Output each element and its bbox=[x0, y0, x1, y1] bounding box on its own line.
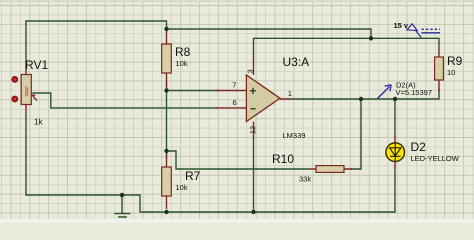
wire op-amp pin12 down to ground rail bbox=[253, 139, 255, 212]
op-amp U3:A bbox=[216, 56, 289, 140]
wire plus node to op-amp pin7 bbox=[167, 90, 218, 92]
svg-text:D2: D2 bbox=[411, 140, 427, 154]
svg-text:R9: R9 bbox=[447, 54, 463, 68]
wire rail to R9 top bbox=[371, 38, 439, 49]
wire op-amp pin3 to rail bbox=[254, 38, 372, 56]
svg-text:LM339: LM339 bbox=[283, 131, 306, 140]
svg-text:1k: 1k bbox=[34, 118, 43, 127]
svg-text:1: 1 bbox=[288, 89, 292, 98]
wire R10 right up to output bbox=[351, 99, 361, 169]
svg-text:R7: R7 bbox=[185, 169, 201, 183]
ground terminal bbox=[115, 195, 131, 217]
wire plus node down to feedback junction bbox=[166, 91, 168, 159]
RV1 state dot lower bbox=[11, 96, 18, 103]
wire LED bottom to ground rail bbox=[26, 113, 395, 212]
svg-text:15 v: 15 v bbox=[394, 21, 409, 30]
svg-text:12: 12 bbox=[248, 126, 257, 134]
svg-text:33k: 33k bbox=[299, 175, 311, 184]
wire feedback jog to R10 left bbox=[167, 151, 310, 169]
resistor R10 bbox=[309, 166, 352, 173]
svg-text:10k: 10k bbox=[176, 59, 188, 68]
junction feedback node bbox=[164, 149, 168, 153]
resistor R9 bbox=[435, 49, 444, 92]
wire output junction down to LED top bbox=[394, 99, 396, 136]
junction output to LED bbox=[393, 97, 397, 101]
resistor R8 bbox=[162, 31, 172, 87]
svg-text:LED-YELLOW: LED-YELLOW bbox=[411, 154, 460, 163]
resistor R7 bbox=[162, 154, 172, 209]
junction R8 top bbox=[164, 27, 168, 31]
potentiometer RV1 bbox=[21, 66, 37, 113]
svg-text:R10: R10 bbox=[272, 152, 294, 166]
wire R8-junction to +15 rail step bbox=[167, 29, 372, 38]
wire pot-top to R8 top junction bbox=[26, 21, 167, 66]
svg-text:RV1: RV1 bbox=[25, 58, 48, 72]
RV1 state dot upper bbox=[11, 76, 18, 83]
svg-text:U3:A: U3:A bbox=[283, 55, 310, 69]
junction 15V rail bbox=[369, 36, 373, 40]
voltage probe D2(A) bbox=[377, 85, 391, 99]
svg-text:3: 3 bbox=[246, 69, 255, 73]
junction R7 bottom bbox=[164, 210, 168, 214]
svg-text:10: 10 bbox=[447, 68, 455, 77]
junction pin12 ground bbox=[251, 210, 255, 214]
power terminal 15v bbox=[407, 24, 440, 38]
svg-text:6: 6 bbox=[233, 98, 237, 107]
LED D2 bbox=[386, 136, 405, 168]
svg-text:10k: 10k bbox=[176, 183, 188, 192]
svg-text:V=5.15397: V=5.15397 bbox=[396, 88, 433, 97]
junction plus-input node bbox=[164, 88, 168, 92]
junction output to R10 bbox=[359, 97, 363, 101]
svg-text:7: 7 bbox=[232, 81, 236, 90]
wire R8 bottom to plus-input node bbox=[166, 82, 168, 91]
svg-text:R8: R8 bbox=[175, 45, 191, 59]
wire op-amp output to R9 bottom bbox=[289, 89, 439, 99]
junction ground at GND symbol bbox=[120, 193, 124, 197]
wire pot wiper to op-amp pin6 bbox=[33, 93, 217, 108]
